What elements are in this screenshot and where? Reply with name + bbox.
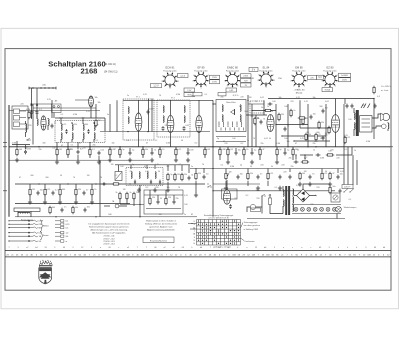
resistor R44 bbox=[318, 121, 320, 129]
svg-text:Fassung unten: Fassung unten bbox=[259, 70, 272, 73]
ground G2 bbox=[55, 160, 59, 164]
volume pot P1 bbox=[225, 172, 227, 180]
wire osc section bbox=[138, 131, 140, 147]
resistor R21 bbox=[227, 148, 229, 156]
capacitor C20 bbox=[235, 151, 238, 156]
capacitor C19 bbox=[61, 208, 64, 213]
ruler band bottom line bbox=[5, 256, 391, 258]
frame edge ticks bbox=[3, 142, 7, 144]
svg-text:220: 220 bbox=[168, 197, 171, 199]
coil L10 IF secondary bbox=[184, 106, 185, 113]
resistor R46 h bbox=[264, 109, 272, 111]
coil L6 bandfilter bbox=[94, 124, 95, 131]
svg-text:10k: 10k bbox=[312, 97, 315, 99]
svg-text:0,1: 0,1 bbox=[71, 145, 74, 147]
svg-text:Sk: Sk bbox=[39, 241, 41, 243]
svg-text:1k: 1k bbox=[354, 150, 356, 152]
svg-text:x2: x2 bbox=[127, 247, 129, 249]
tube V3 EABC80 symbol bbox=[267, 115, 274, 132]
manufacturer crest logo (crown) bbox=[40, 261, 53, 265]
tube V6 left value box bbox=[317, 75, 324, 79]
svg-text:220: 220 bbox=[330, 150, 333, 152]
wire mid dropdowns bbox=[219, 147, 221, 149]
mains switch S2 bbox=[261, 194, 265, 196]
svg-text:0,25: 0,25 bbox=[47, 99, 51, 101]
wire main AVC bus bbox=[9, 146, 390, 148]
svg-text:Fassung unten: Fassung unten bbox=[323, 70, 336, 73]
svg-text:EF 89: EF 89 bbox=[198, 66, 205, 70]
svg-text:0,25: 0,25 bbox=[47, 189, 51, 191]
small value box right bbox=[251, 208, 261, 212]
svg-text:0,25: 0,25 bbox=[296, 185, 300, 187]
speaker LS2 tweeter bbox=[382, 124, 387, 129]
svg-text:1M: 1M bbox=[123, 189, 126, 191]
svg-text:90mA: 90mA bbox=[325, 89, 331, 92]
tone caps C25 C26 bbox=[279, 175, 282, 180]
svg-text:4: 4 bbox=[304, 86, 305, 88]
negative feedback resistor R33 bbox=[326, 154, 334, 156]
svg-text:300: 300 bbox=[45, 177, 48, 179]
svg-text:4: 4 bbox=[175, 86, 176, 88]
svg-text:10k: 10k bbox=[40, 189, 43, 191]
wire EL84 feeds bbox=[335, 99, 337, 116]
svg-text:8: 8 bbox=[258, 75, 259, 77]
capacitor C31 bbox=[316, 154, 321, 157]
svg-text:Fassung unten: Fassung unten bbox=[163, 70, 176, 73]
svg-text:300: 300 bbox=[42, 143, 45, 145]
terminal strip AM antenna bbox=[12, 106, 28, 129]
svg-text:70: 70 bbox=[73, 177, 75, 179]
svg-text:6: 6 bbox=[195, 86, 196, 88]
svg-text:(Ratio): (Ratio) bbox=[296, 92, 303, 95]
svg-text:Abweichungen von +-15% sind zu: Abweichungen von +-15% sind zulaessig. bbox=[91, 229, 128, 232]
wire AF bus bbox=[213, 168, 330, 170]
svg-text:2: 2 bbox=[239, 75, 240, 77]
wire grid bus bbox=[100, 131, 210, 133]
svg-text:0,5M: 0,5M bbox=[176, 94, 181, 96]
svg-text:0,25: 0,25 bbox=[184, 195, 188, 197]
svg-text:300: 300 bbox=[85, 124, 88, 126]
svg-text:5p: 5p bbox=[254, 149, 256, 151]
svg-text:Drucktasten: Drucktasten bbox=[245, 240, 255, 243]
wire heater chain bbox=[292, 204, 341, 206]
svg-text:12: 12 bbox=[255, 247, 257, 249]
coil L1 FM input bbox=[37, 119, 38, 126]
svg-text:09: 09 bbox=[154, 247, 156, 249]
ground G1 bbox=[15, 158, 19, 162]
tube V2a symbol bbox=[196, 115, 202, 132]
svg-text:KW: KW bbox=[39, 224, 42, 226]
svg-text:Die angegebenen Spannungen sin: Die angegebenen Spannungen sind mit eine… bbox=[88, 223, 129, 226]
svg-text:220: 220 bbox=[224, 143, 227, 145]
coil L9 IF primary bbox=[163, 106, 164, 113]
node bus dots bbox=[16, 146, 17, 147]
svg-text:23 459 - 014: 23 459 - 014 bbox=[103, 244, 115, 246]
node lower bus junctions bbox=[38, 183, 39, 184]
svg-text:25k: 25k bbox=[74, 124, 77, 126]
svg-text:2n: 2n bbox=[107, 114, 109, 116]
svg-text:5p: 5p bbox=[191, 95, 193, 97]
capacitor C36 bbox=[284, 127, 287, 132]
wire lower mid bus bbox=[213, 190, 335, 192]
capacitor C10 bbox=[83, 191, 86, 196]
wire secondary bus left bbox=[9, 159, 151, 161]
svg-text:0,5M: 0,5M bbox=[276, 143, 281, 145]
svg-text:220: 220 bbox=[78, 189, 81, 191]
manufacturer crest logo (shield with tree) bbox=[39, 268, 52, 284]
svg-text:10k: 10k bbox=[145, 149, 148, 151]
svg-text:0,1: 0,1 bbox=[349, 199, 352, 201]
resistor R30 bbox=[305, 133, 307, 141]
svg-text:0,5M: 0,5M bbox=[111, 149, 116, 151]
svg-text:220: 220 bbox=[20, 104, 23, 106]
svg-text:5p: 5p bbox=[122, 149, 124, 151]
svg-text:2: 2 bbox=[337, 75, 338, 77]
ground row G7 bbox=[224, 186, 228, 190]
resistor R14 bbox=[142, 148, 144, 156]
ground row G4 bbox=[108, 158, 112, 162]
tube V1a UKW triode bbox=[41, 116, 46, 130]
svg-text:1k: 1k bbox=[246, 149, 248, 151]
svg-text:0,25: 0,25 bbox=[270, 173, 274, 175]
svg-text:1k: 1k bbox=[162, 149, 164, 151]
capacitor C61 bbox=[351, 104, 354, 109]
wire to input coil bbox=[31, 115, 33, 119]
svg-text:25k: 25k bbox=[129, 171, 132, 173]
resistor R26 bbox=[247, 172, 249, 180]
svg-text:5k: 5k bbox=[154, 149, 156, 151]
svg-text:09: 09 bbox=[319, 247, 321, 249]
svg-text:25k: 25k bbox=[184, 174, 187, 176]
svg-text:23 457 - 012: 23 457 - 012 bbox=[103, 238, 115, 240]
svg-text:b4: b4 bbox=[200, 247, 202, 249]
svg-text:8,2: 8,2 bbox=[127, 140, 130, 142]
svg-text:4: 4 bbox=[271, 85, 272, 87]
svg-text:7: 7 bbox=[210, 247, 211, 249]
svg-text:220: 220 bbox=[290, 101, 293, 103]
border frame bbox=[5, 49, 391, 291]
svg-text:1k: 1k bbox=[79, 143, 81, 145]
switch table contact marks bbox=[198, 220, 239, 245]
svg-text:x2: x2 bbox=[228, 247, 230, 249]
resistor R45 bbox=[328, 126, 330, 134]
resistor R41 bbox=[278, 113, 280, 121]
capacitor C17 bbox=[187, 151, 190, 156]
svg-text:0,5M: 0,5M bbox=[221, 149, 226, 151]
wire AF preamp internal bbox=[144, 194, 183, 196]
dial lamp LA4 bbox=[313, 207, 317, 211]
svg-text:1k: 1k bbox=[313, 150, 315, 152]
switch S3 mid bbox=[207, 185, 211, 187]
svg-text:x2: x2 bbox=[173, 247, 175, 249]
capacitor C35 bbox=[260, 120, 263, 125]
svg-text:220: 220 bbox=[316, 187, 319, 189]
svg-text:7: 7 bbox=[257, 80, 258, 82]
wire heater feed under tube row bbox=[268, 98, 374, 100]
svg-text:6: 6 bbox=[260, 85, 261, 87]
resistor R31 bbox=[315, 133, 317, 141]
svg-text:70: 70 bbox=[312, 173, 314, 175]
svg-text:8,2: 8,2 bbox=[98, 120, 101, 122]
svg-text:0,02: 0,02 bbox=[325, 101, 329, 103]
svg-text:L: L bbox=[194, 230, 195, 232]
svg-text:gezeichnet. Abgleich nach: gezeichnet. Abgleich nach bbox=[149, 226, 172, 229]
dial lamp LA8 (large) bbox=[336, 207, 342, 213]
svg-text:5k: 5k bbox=[287, 125, 289, 127]
svg-text:U K M L TA S N H U K M: U K M L TA S N H U K M bbox=[209, 216, 229, 219]
svg-text:70: 70 bbox=[255, 101, 257, 103]
svg-text:0,1: 0,1 bbox=[221, 165, 224, 167]
svg-text:70: 70 bbox=[159, 95, 161, 97]
svg-text:47: 47 bbox=[146, 143, 148, 145]
wire osc cluster bbox=[130, 165, 132, 169]
resistor R24 bbox=[276, 148, 278, 156]
svg-text:2x300V: 2x300V bbox=[341, 75, 348, 77]
tube V2 EF 89 base diagram bbox=[192, 71, 209, 89]
svg-text:220: 220 bbox=[240, 97, 243, 99]
text block B (component notes) bbox=[145, 220, 178, 232]
svg-text:25k: 25k bbox=[250, 173, 253, 175]
svg-text:Fassung unten: Fassung unten bbox=[226, 70, 239, 73]
svg-text:EM 80: EM 80 bbox=[295, 66, 303, 70]
resistor R15 bbox=[159, 148, 161, 156]
wire heater risers bbox=[344, 99, 346, 105]
wire bandfilter feeds bbox=[55, 117, 105, 119]
svg-text:100: 100 bbox=[120, 166, 123, 168]
table leader lines bbox=[241, 223, 244, 229]
svg-text:47: 47 bbox=[144, 166, 146, 168]
hatch marks top right bbox=[361, 104, 364, 109]
capacitor C6 bbox=[77, 150, 80, 155]
svg-text:70: 70 bbox=[253, 138, 255, 140]
node top-right feed bbox=[373, 98, 374, 99]
svg-text:25k: 25k bbox=[152, 197, 155, 199]
text block B order box bbox=[143, 237, 174, 243]
wire right verticals bbox=[343, 104, 345, 185]
svg-text:5p: 5p bbox=[217, 138, 219, 140]
wire rectifier top bbox=[226, 180, 228, 190]
svg-text:Alle Kondensatoren in pF angeg: Alle Kondensatoren in pF angegeben. bbox=[92, 232, 126, 235]
node 213 dots bbox=[212, 103, 213, 104]
svg-text:c: c bbox=[310, 247, 311, 249]
switch contact rows bbox=[218, 122, 220, 126]
svg-text:von oben gesehen: von oben gesehen bbox=[244, 225, 260, 227]
switchbox (UKW unit) bbox=[216, 100, 246, 132]
svg-text:c: c bbox=[292, 247, 293, 249]
wire bridge leads bbox=[303, 184, 330, 189]
svg-text:7: 7 bbox=[137, 247, 138, 249]
tube V5 right value box bbox=[308, 76, 317, 80]
voltage selector bbox=[331, 193, 340, 202]
svg-text:0,1: 0,1 bbox=[269, 195, 272, 197]
svg-text:300: 300 bbox=[319, 106, 322, 108]
svg-text:47: 47 bbox=[223, 195, 225, 197]
svg-text:0,25: 0,25 bbox=[155, 164, 159, 166]
svg-text:0,25: 0,25 bbox=[344, 135, 348, 137]
ruler band reference numbers bbox=[6, 254, 390, 256]
svg-text:8,2: 8,2 bbox=[235, 198, 238, 200]
coil L5 bandfilter bbox=[83, 124, 84, 131]
capacitor C19b bbox=[84, 208, 87, 213]
capacitor C2 bbox=[36, 110, 39, 115]
svg-text:31: 31 bbox=[45, 247, 47, 249]
svg-text:82: 82 bbox=[191, 214, 193, 216]
svg-text:0,1: 0,1 bbox=[299, 192, 302, 194]
svg-text:220: 220 bbox=[28, 125, 31, 127]
capacitor C34 h bbox=[294, 161, 299, 164]
svg-text:8,2: 8,2 bbox=[155, 140, 158, 142]
svg-text:LW: LW bbox=[39, 232, 42, 234]
resistor R28 bbox=[195, 172, 197, 180]
svg-text:5: 5 bbox=[18, 247, 19, 249]
svg-text:Tasten: Tasten bbox=[43, 234, 49, 237]
svg-text:5k: 5k bbox=[116, 192, 118, 194]
capacitor C27b bbox=[188, 176, 191, 181]
svg-text:k: k bbox=[192, 247, 193, 249]
svg-text:0,02: 0,02 bbox=[264, 138, 268, 140]
svg-text:Sk.: Sk. bbox=[66, 236, 69, 238]
TR1 primary winding bbox=[283, 190, 284, 197]
capacitor C6b bbox=[98, 151, 101, 156]
svg-text:0,1: 0,1 bbox=[345, 149, 348, 151]
IF can T2 (dashed) bbox=[157, 100, 190, 137]
svg-text:0,02: 0,02 bbox=[185, 125, 189, 127]
resistor R28d bbox=[181, 173, 183, 181]
svg-text:0,5M: 0,5M bbox=[189, 149, 194, 151]
svg-text:220: 220 bbox=[281, 114, 284, 116]
svg-text:25k: 25k bbox=[288, 158, 291, 160]
svg-text:0,25: 0,25 bbox=[143, 94, 147, 96]
svg-text:25k: 25k bbox=[312, 143, 315, 145]
svg-text:b4: b4 bbox=[218, 247, 220, 249]
resistor R9 bbox=[75, 188, 77, 196]
svg-text:70: 70 bbox=[318, 134, 320, 136]
svg-text:7: 7 bbox=[321, 81, 322, 83]
svg-text:220 V~: 220 V~ bbox=[344, 186, 351, 188]
svg-text:Roehrenvoltmeter gegen Chassis: Roehrenvoltmeter gegen Chassis gemessen. bbox=[89, 226, 129, 229]
wire ratio to tube bbox=[246, 114, 267, 116]
svg-text:1k: 1k bbox=[297, 150, 299, 152]
bridge rectifier GR1 bbox=[297, 189, 310, 202]
wire lower-left bus2 bbox=[15, 203, 130, 205]
svg-text:50: 50 bbox=[325, 171, 327, 173]
svg-text:1k: 1k bbox=[247, 140, 249, 142]
legend column 2 (level marks) bbox=[55, 220, 70, 243]
resistor R3 bbox=[67, 148, 69, 156]
band filter box (dashed) bbox=[55, 121, 105, 143]
resistor R19 bbox=[72, 206, 74, 214]
svg-text:220: 220 bbox=[256, 198, 259, 200]
wire left extra verticals bbox=[32, 104, 34, 145]
svg-text:2n: 2n bbox=[64, 206, 66, 208]
svg-text:840: 840 bbox=[108, 214, 111, 216]
svg-text:1M: 1M bbox=[32, 189, 35, 191]
capacitor C4 bbox=[24, 150, 27, 155]
svg-text:25k: 25k bbox=[92, 145, 95, 147]
svg-text:0,25: 0,25 bbox=[324, 173, 328, 175]
svg-text:0,25: 0,25 bbox=[63, 124, 67, 126]
capacitor C50 bbox=[157, 200, 160, 205]
svg-text:Skalenlampen: Skalenlampen bbox=[344, 207, 357, 209]
svg-text:c: c bbox=[118, 247, 119, 249]
tube V4 left value box bbox=[249, 68, 258, 72]
svg-text:0,02: 0,02 bbox=[340, 171, 344, 173]
capacitor C39 h bbox=[268, 103, 273, 106]
svg-text:Fassung unten: Fassung unten bbox=[194, 70, 207, 73]
svg-text:100: 100 bbox=[52, 148, 55, 150]
capacitor C37 bbox=[310, 115, 313, 120]
svg-text:5: 5 bbox=[329, 247, 330, 249]
svg-text:4: 4 bbox=[335, 86, 336, 88]
tube V2 right value boxes bbox=[210, 75, 220, 79]
capacitor C21 bbox=[251, 151, 254, 156]
svg-text:5k: 5k bbox=[269, 138, 271, 140]
svg-text:8: 8 bbox=[225, 75, 226, 77]
output transformer body bbox=[360, 116, 372, 132]
capacitor C13 bbox=[162, 126, 165, 131]
svg-text:6: 6 bbox=[227, 86, 228, 88]
dial lamp LA3 bbox=[307, 207, 311, 211]
svg-text:10k: 10k bbox=[34, 111, 37, 113]
svg-text:47: 47 bbox=[295, 143, 297, 145]
svg-text:Ersatzteil-Nummer: Ersatzteil-Nummer bbox=[150, 239, 168, 242]
svg-text:10k: 10k bbox=[340, 173, 343, 175]
svg-text:0,25: 0,25 bbox=[100, 149, 104, 151]
svg-text:5: 5 bbox=[365, 247, 366, 249]
resistor R55 bbox=[149, 197, 151, 205]
svg-text:7: 7 bbox=[8, 247, 9, 249]
wire vertical x100 bbox=[99, 160, 101, 217]
capacitor C15 bbox=[129, 151, 132, 156]
capacitor C62 bbox=[374, 104, 377, 109]
tube V6 EZ80 symbol bbox=[223, 190, 230, 204]
svg-text:2n: 2n bbox=[191, 166, 193, 168]
svg-text:5: 5 bbox=[266, 87, 267, 89]
tube V4 EL84 symbol bbox=[331, 115, 339, 133]
svg-text:5: 5 bbox=[201, 88, 202, 90]
svg-text:0,1: 0,1 bbox=[205, 94, 208, 96]
svg-text:100: 100 bbox=[348, 119, 351, 121]
trimmers osc bbox=[134, 180, 136, 185]
svg-text:100: 100 bbox=[232, 138, 235, 140]
tube V2 lower value boxes bbox=[184, 88, 195, 92]
svg-text:0,5M: 0,5M bbox=[73, 114, 78, 116]
ferrite rod antenna bbox=[14, 208, 40, 211]
svg-text:0,5M: 0,5M bbox=[12, 143, 17, 145]
svg-text:5p: 5p bbox=[240, 165, 242, 167]
resistor R37 h bbox=[301, 161, 309, 163]
svg-text:1k: 1k bbox=[261, 107, 263, 109]
svg-text:23 458 - 013: 23 458 - 013 bbox=[103, 241, 115, 243]
resistor R28c bbox=[174, 173, 176, 181]
svg-text:300: 300 bbox=[52, 207, 55, 209]
svg-text:1M: 1M bbox=[229, 172, 232, 174]
svg-text:0,1: 0,1 bbox=[61, 114, 64, 116]
wire osc right cluster bbox=[167, 165, 169, 171]
svg-text:47: 47 bbox=[19, 177, 21, 179]
coil L3 bandfilter bbox=[61, 124, 62, 131]
svg-text:47: 47 bbox=[332, 173, 334, 175]
resistor R27 bbox=[267, 172, 269, 180]
wire mains leads bbox=[261, 203, 263, 207]
capacitor C23 bbox=[237, 175, 240, 180]
resistor R12 bbox=[109, 148, 111, 156]
svg-text:100: 100 bbox=[87, 206, 90, 208]
svg-text:2168: 2168 bbox=[81, 67, 98, 76]
svg-text:25k: 25k bbox=[290, 166, 293, 168]
svg-text:250V: 250V bbox=[342, 80, 347, 82]
svg-text:5 V: 5 V bbox=[252, 69, 256, 71]
